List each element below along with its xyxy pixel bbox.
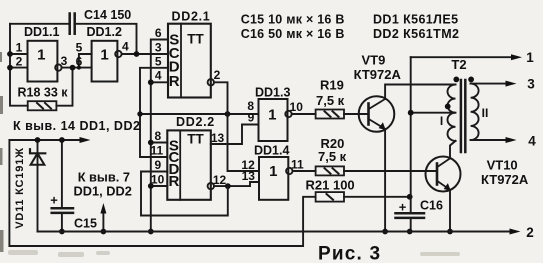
svg-text:6: 6 xyxy=(76,54,83,68)
svg-text:12: 12 xyxy=(213,173,227,187)
svg-text:T2: T2 xyxy=(451,57,466,72)
gate DD1.3 xyxy=(259,99,292,141)
svg-text:К выв. 14 DD1, DD2: К выв. 14 DD1, DD2 xyxy=(13,119,140,133)
svg-text:DD1.2: DD1.2 xyxy=(87,25,122,39)
svg-text:R21 100: R21 100 xyxy=(306,178,355,193)
wire VT10 emitter down to bus xyxy=(449,190,451,232)
resistor R19 xyxy=(316,110,344,119)
capacitor C15 xyxy=(52,140,73,232)
wire D5 elbow down to C11 of DD2.2 xyxy=(140,68,168,157)
svg-text:VT9: VT9 xyxy=(362,53,386,68)
flip-flop DD2.2 xyxy=(167,130,214,199)
wire R18 right elbow to output node xyxy=(56,68,72,106)
svg-text:4: 4 xyxy=(155,69,162,83)
svg-text:10: 10 xyxy=(151,173,165,187)
wire winding I bottom to VT10 collector xyxy=(450,141,456,159)
svg-text:DD1.4: DD1.4 xyxy=(254,144,289,158)
svg-text:I: I xyxy=(440,114,443,128)
resistor R21 xyxy=(316,192,344,202)
gate DD1.1 xyxy=(28,41,62,82)
svg-text:DD2.1: DD2.1 xyxy=(172,10,211,24)
transformer T2 winding II xyxy=(471,84,479,140)
svg-text:+: + xyxy=(50,193,58,208)
svg-text:9: 9 xyxy=(248,110,255,124)
transistor VT10 xyxy=(426,157,461,192)
svg-text:13: 13 xyxy=(242,169,256,183)
svg-text:КТ972А: КТ972А xyxy=(481,172,529,187)
svg-text:C15 10 мк × 16 В: C15 10 мк × 16 В xyxy=(241,12,345,26)
svg-text:Рис. 3: Рис. 3 xyxy=(318,244,381,263)
phase dot winding I top xyxy=(453,77,459,83)
svg-text:R: R xyxy=(168,173,179,190)
svg-text:4: 4 xyxy=(122,39,129,53)
wire bottom common bus to terminal 2 xyxy=(38,231,511,233)
transistor VT9 xyxy=(359,96,395,132)
wire pin 5 tie to pin 6 xyxy=(79,54,92,68)
wire winding II top to terminal 3 xyxy=(471,83,506,85)
zener diode VD11 xyxy=(30,140,45,232)
wire left oscillator vertical with R18 left elbow xyxy=(10,24,28,106)
svg-text:КТ972А: КТ972А xyxy=(354,67,402,82)
svg-text:3: 3 xyxy=(155,41,162,55)
svg-text:C15: C15 xyxy=(74,217,97,231)
svg-text:6: 6 xyxy=(155,26,162,40)
svg-text:2: 2 xyxy=(214,68,221,82)
flip-flop DD2.1 xyxy=(168,24,214,98)
svg-text:9: 9 xyxy=(154,158,161,172)
svg-text:5: 5 xyxy=(76,41,83,55)
svg-text:DD1, DD2: DD1, DD2 xyxy=(74,184,132,199)
wire winding II bottom to terminal 4 xyxy=(471,139,506,141)
wire DD1.3 output to R19 xyxy=(292,113,316,115)
wire S8 stub xyxy=(151,142,168,144)
svg-text:R: R xyxy=(169,73,180,90)
node ground chain dots xyxy=(148,79,154,234)
caption Рис. 3 xyxy=(318,244,381,263)
wire top loop from oscillator node to C14 xyxy=(10,23,69,25)
svg-text:2: 2 xyxy=(526,225,534,240)
svg-text:VT10: VT10 xyxy=(487,158,518,173)
wire R4 stub xyxy=(151,81,168,83)
svg-text:R18 33 к: R18 33 к xyxy=(18,86,69,100)
pin labels DD1.2 xyxy=(76,39,129,68)
svg-text:1: 1 xyxy=(268,107,276,124)
svg-text:TT: TT xyxy=(187,132,204,147)
svg-text:1: 1 xyxy=(526,50,534,65)
svg-text:C16 50 мк × 16 В: C16 50 мк × 16 В xyxy=(241,27,345,41)
wire DD1.3 pin 9 entry xyxy=(242,124,259,126)
svg-text:+: + xyxy=(399,200,407,215)
svg-text:7,5 к: 7,5 к xyxy=(318,149,347,164)
pin labels DD2.1 xyxy=(155,26,221,83)
svg-text:13: 13 xyxy=(211,131,225,145)
svg-text:2: 2 xyxy=(16,54,23,68)
wire arrow to pin 7 supply xyxy=(102,213,104,232)
svg-text:R19: R19 xyxy=(320,78,344,93)
wire C14 right plate to clock node xyxy=(76,24,137,54)
wire VT9 collector to winding I top xyxy=(385,85,455,100)
scan artifact bottom smudges xyxy=(8,250,460,257)
wire feedback Q2-bar to D9 xyxy=(141,172,228,216)
wire R21 left to lower supply rail and left power rail xyxy=(9,140,315,246)
wire supply node 1: terminal arrow, vertical through tap and C16 xyxy=(411,57,514,231)
svg-text:1: 1 xyxy=(269,163,277,180)
svg-text:C14 150: C14 150 xyxy=(84,8,131,22)
svg-text:1: 1 xyxy=(16,41,23,55)
svg-text:TT: TT xyxy=(187,31,204,46)
wire pin 1 input DD1.1 xyxy=(10,53,28,55)
wire R10 stub xyxy=(151,185,168,187)
wire pin 2 input DD1.1 xyxy=(10,67,28,69)
svg-text:К выв. 7: К выв. 7 xyxy=(78,169,130,184)
pin labels DD2.2 xyxy=(150,129,226,187)
svg-text:DD1.3: DD1.3 xyxy=(255,86,290,100)
svg-text:VD11 КС191Ж: VD11 КС191Ж xyxy=(14,147,26,229)
svg-text:8: 8 xyxy=(154,129,161,143)
svg-text:4: 4 xyxy=(528,134,536,149)
node junction pins 1-2 xyxy=(7,51,13,70)
wire DD1.1 output to DD1.2 input pin 6 xyxy=(62,67,92,69)
svg-text:10: 10 xyxy=(290,100,304,114)
capacitor C14 xyxy=(70,14,75,34)
svg-text:DD2.2: DD2.2 xyxy=(176,115,215,129)
phase dot winding II xyxy=(468,77,474,83)
transformer T2 core xyxy=(461,80,465,152)
gate DD1.4 xyxy=(259,157,292,200)
svg-text:DD1.1: DD1.1 xyxy=(24,25,59,39)
svg-text:DD2 К561ТМ2: DD2 К561ТМ2 xyxy=(373,27,459,41)
wire R20 to VT10 base xyxy=(344,170,437,172)
pin labels DD1.3 xyxy=(247,99,303,124)
wire VT9 emitter down to bus xyxy=(384,129,386,232)
svg-text:C16: C16 xyxy=(420,199,443,213)
wire R21 right to supply node xyxy=(344,196,410,198)
gate DD1.2 xyxy=(92,41,122,82)
wire ground chain S6 down to bottom bus xyxy=(151,40,168,232)
svg-text:5: 5 xyxy=(155,54,162,68)
node output 3 junction xyxy=(70,65,76,71)
label C14 value xyxy=(84,8,131,22)
capacitor C16 xyxy=(396,213,425,218)
top parts list labels xyxy=(241,12,460,41)
pin labels DD1.4 xyxy=(241,158,304,183)
svg-text:1: 1 xyxy=(100,47,108,64)
svg-text:7,5 к: 7,5 к xyxy=(316,93,345,108)
pin labels DD1.1 xyxy=(16,41,68,69)
wire DD2.2 output 13 to DD1.3 pin 9 xyxy=(211,125,259,145)
svg-text:3: 3 xyxy=(527,77,535,92)
resistor R20 xyxy=(316,166,344,175)
wire DD2.2 output 12 to DD1.4 pin 13 xyxy=(214,182,259,186)
node clock junction xyxy=(134,51,140,57)
wire DD1.2 output to DD2.1 clock C pin 3 xyxy=(122,53,168,55)
wire Q1-bar branch to DD1.3 pin 8 xyxy=(140,113,259,115)
svg-text:3: 3 xyxy=(61,54,68,68)
wire R19 to VT9 base xyxy=(344,113,369,115)
svg-text:DD1 К561ЛЕ5: DD1 К561ЛЕ5 xyxy=(373,12,458,26)
transformer T2 winding I xyxy=(448,85,456,141)
phase dot winding I lower xyxy=(445,104,451,110)
node Q1-bar junctions xyxy=(137,111,230,117)
svg-text:1: 1 xyxy=(37,47,45,64)
resistor R18 xyxy=(28,101,57,110)
svg-text:II: II xyxy=(482,106,489,120)
wire center tap of winding I xyxy=(411,112,456,114)
node pin 12 junction xyxy=(225,183,231,189)
wire DD1.4 output to R20 xyxy=(293,170,316,172)
scan artifact left edge marks xyxy=(0,52,4,252)
power arrow to pin 14 xyxy=(80,137,91,143)
wire DD2.1 output pin 2 down to DD1.4 pin 12 xyxy=(214,82,259,171)
svg-text:11: 11 xyxy=(150,144,163,158)
svg-text:11: 11 xyxy=(291,158,304,172)
